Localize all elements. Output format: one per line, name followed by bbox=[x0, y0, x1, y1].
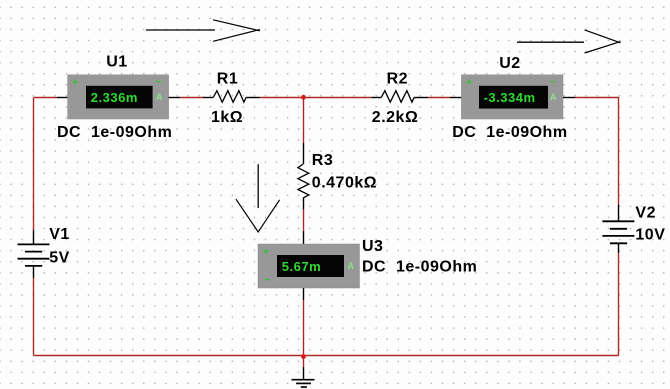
wire: U2 right pin (black) bbox=[563, 97, 575, 99]
wire: U3 bottom pin (black) bbox=[303, 288, 305, 300]
svg-text:A: A bbox=[348, 262, 354, 273]
svg-text:2.2kΩ: 2.2kΩ bbox=[372, 109, 418, 126]
node A (junction dot, top) bbox=[301, 95, 306, 100]
wire: left rail red below V1 bbox=[33, 278, 35, 356]
svg-text:DC 1e-09Ohm: DC 1e-09Ohm bbox=[57, 124, 172, 141]
svg-text:1kΩ: 1kΩ bbox=[211, 109, 243, 126]
wire: red between U1 and R1 bbox=[180, 97, 203, 99]
wire: right rail red below V2 bbox=[618, 253, 620, 355]
arrow: current direction down (through R3) bbox=[236, 164, 280, 232]
svg-text:A: A bbox=[550, 93, 556, 104]
ammeter U3 bbox=[258, 244, 360, 288]
wire: U1 left pin (black) bbox=[57, 97, 68, 99]
svg-text:+: + bbox=[72, 78, 78, 89]
arrow: current direction top-right bbox=[517, 30, 621, 53]
wire: red between R3 and U3 bbox=[303, 210, 305, 231]
svg-text:−: − bbox=[264, 275, 270, 286]
svg-text:V1: V1 bbox=[49, 226, 70, 243]
node B (junction dot, bottom) bbox=[301, 354, 306, 359]
svg-text:DC 1e-09Ohm: DC 1e-09Ohm bbox=[362, 258, 477, 275]
wire: U3 top pin (black) bbox=[303, 231, 305, 244]
svg-text:U2: U2 bbox=[499, 55, 520, 72]
svg-text:R2: R2 bbox=[387, 71, 408, 88]
ground bbox=[292, 367, 315, 387]
svg-text:-3.334m: -3.334m bbox=[484, 90, 536, 105]
svg-text:U1: U1 bbox=[106, 54, 127, 71]
svg-text:0.470kΩ: 0.470kΩ bbox=[312, 175, 377, 192]
svg-text:R1: R1 bbox=[217, 71, 238, 88]
svg-text:10V: 10V bbox=[635, 227, 665, 244]
wire: middle branch red from node A down to R3 bbox=[303, 98, 305, 144]
resistor R3 (vertical) bbox=[298, 143, 309, 210]
ammeter U2 bbox=[461, 75, 563, 119]
svg-text:+: + bbox=[466, 78, 472, 89]
wire: top-left horizontal red from left rail to U1 bbox=[34, 97, 58, 99]
ammeter U1 bbox=[68, 75, 169, 119]
resistor R2 bbox=[371, 91, 428, 103]
svg-text:U3: U3 bbox=[362, 238, 383, 255]
resistor R1 bbox=[203, 91, 260, 103]
wire: red stub from node B to ground bbox=[303, 357, 305, 368]
svg-text:R3: R3 bbox=[312, 152, 333, 169]
svg-text:V2: V2 bbox=[635, 205, 656, 222]
svg-text:−: − bbox=[156, 77, 162, 88]
wire: red between R2 and U2 bbox=[428, 97, 450, 99]
arrow: current direction top-left bbox=[146, 20, 260, 42]
wire: red from node A to R2 bbox=[304, 97, 372, 99]
svg-text:DC 1e-09Ohm: DC 1e-09Ohm bbox=[452, 124, 567, 141]
battery V1 bbox=[18, 230, 50, 278]
svg-text:A: A bbox=[156, 93, 162, 104]
svg-text:−: − bbox=[550, 77, 556, 88]
wire: red from U2 to right rail corner bbox=[575, 98, 619, 205]
wire: red from U3 to node B bbox=[303, 300, 305, 357]
svg-text:+: + bbox=[263, 247, 269, 258]
wire: bottom rail red bbox=[34, 355, 619, 357]
svg-text:5V: 5V bbox=[49, 249, 70, 266]
wire: U1 right pin (black) bbox=[169, 97, 180, 99]
wire: U2 left pin (black) bbox=[450, 97, 461, 99]
svg-text:5.67m: 5.67m bbox=[282, 259, 321, 274]
wire: left rail red top (V1 up to top-left corner) bbox=[33, 98, 35, 231]
wire: red from R1 to node A bbox=[260, 97, 304, 99]
svg-text:2.336m: 2.336m bbox=[91, 90, 138, 105]
battery V2 bbox=[602, 205, 634, 254]
